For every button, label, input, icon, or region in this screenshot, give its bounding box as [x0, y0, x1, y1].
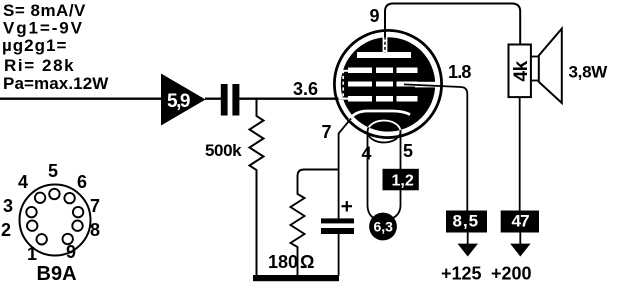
cathode lead to pin 7	[339, 119, 351, 219]
cathode (white arc)	[350, 111, 411, 121]
svg-text:Ri= 28k: Ri= 28k	[4, 56, 75, 75]
svg-text:B9A: B9A	[37, 263, 77, 284]
coupling capacitor C1	[221, 84, 240, 116]
svg-text:3,8W: 3,8W	[569, 63, 609, 82]
svg-text:2: 2	[1, 220, 11, 240]
arrow to +125	[458, 233, 479, 257]
anode plate	[357, 52, 411, 58]
grid resistor 500k	[250, 99, 264, 276]
wire triangle to coupling cap	[205, 98, 221, 100]
svg-text:7: 7	[322, 122, 332, 142]
svg-text:7: 7	[90, 196, 100, 216]
grid g2 middle row	[348, 82, 418, 87]
anode lead (dashed, inside disc)	[383, 37, 388, 53]
svg-text:500k: 500k	[205, 141, 242, 160]
input wire	[0, 98, 162, 100]
svg-text:5: 5	[403, 141, 413, 161]
svg-text:1.8: 1.8	[448, 62, 471, 82]
svg-text:1,2: 1,2	[392, 173, 414, 190]
speaker LS1	[539, 29, 562, 103]
svg-text:+125: +125	[441, 264, 482, 284]
tube electrode assembly disc	[341, 37, 435, 131]
socket pin holes	[26, 189, 83, 245]
heater pin 5 wire	[393, 132, 401, 219]
cathode branch to 180 ohm resistor	[291, 170, 339, 277]
svg-text:µg2g1=: µg2g1=	[2, 36, 67, 55]
g1 internal lead (white)	[339, 70, 353, 100]
grid g1 bottom row	[348, 96, 418, 102]
screen grid lead to node 1.8	[404, 82, 467, 211]
driver stage triangle A1 gain 5,9	[161, 74, 206, 126]
wire 4k box down to 47 box	[519, 97, 521, 211]
svg-text:3: 3	[3, 196, 13, 216]
svg-text:6,3: 6,3	[374, 219, 394, 235]
svg-text:S= 8mA/V: S= 8mA/V	[3, 1, 86, 20]
anode current box 8,5	[446, 211, 487, 233]
total current box 47	[501, 211, 539, 233]
svg-text:9: 9	[370, 6, 380, 26]
plus sign	[342, 201, 353, 212]
heater	[368, 121, 401, 143]
wire pin9 to HT rail	[385, 4, 520, 46]
svg-text:180: 180	[268, 252, 298, 272]
svg-text:5: 5	[48, 161, 58, 181]
svg-text:Vg1=-9V: Vg1=-9V	[3, 19, 84, 38]
wire cap to control grid (node g1)	[239, 98, 345, 100]
svg-text:8: 8	[90, 220, 100, 240]
svg-text:3.6: 3.6	[293, 79, 318, 99]
svg-text:5,9: 5,9	[167, 91, 190, 112]
svg-text:4: 4	[362, 144, 372, 164]
svg-text:4k: 4k	[511, 60, 532, 81]
tube V1 envelope	[334, 30, 441, 137]
svg-text:47: 47	[512, 212, 530, 231]
grid g3 top row	[348, 68, 418, 74]
ground bus	[253, 275, 339, 281]
svg-text:6: 6	[77, 172, 87, 192]
arrow to +200	[510, 233, 530, 257]
svg-text:4: 4	[18, 172, 28, 192]
heater current box 1,2	[383, 169, 419, 191]
heater voltage circle 6,3	[369, 213, 397, 241]
svg-text:8,5: 8,5	[453, 212, 480, 231]
cathode bypass capacitor	[321, 218, 354, 234]
svg-text:9: 9	[66, 242, 76, 262]
svg-text:+200: +200	[491, 264, 532, 284]
wire cap to ground bus	[338, 234, 340, 276]
svg-text:1: 1	[27, 244, 37, 264]
heater pin 4 wire	[368, 132, 375, 219]
B9A socket outline	[20, 185, 91, 256]
svg-text:Ω: Ω	[300, 252, 314, 272]
svg-text:Pa=max.12W: Pa=max.12W	[3, 74, 109, 93]
socket pin labels	[1, 161, 100, 264]
anode load 4k box	[509, 45, 533, 98]
speaker connection stubs	[531, 57, 539, 81]
tube parameter text block	[2, 1, 109, 93]
